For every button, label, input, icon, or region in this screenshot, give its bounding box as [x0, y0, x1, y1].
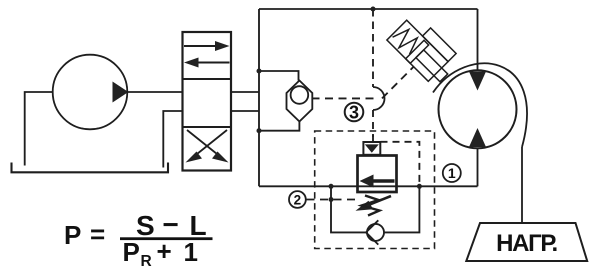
pilot line hop: [373, 87, 385, 110]
label circle 3: [345, 103, 364, 122]
label circle 2: [289, 191, 306, 208]
wire valve drain to tank: [163, 111, 182, 168]
junction dots on node line: [257, 69, 262, 74]
PV1 internal arrow: [368, 179, 395, 182]
svg-text:P: P: [123, 237, 140, 267]
wire valve port B right: [231, 110, 259, 112]
wire load line: [521, 147, 523, 223]
svg-text:1: 1: [448, 165, 456, 181]
PV1 vent dashed line: [381, 142, 420, 187]
pilot line 2 (dashed): [307, 199, 358, 201]
junction dots main line: [329, 184, 334, 189]
piston crossbar: [406, 40, 429, 63]
PV1 adjustable spring arrow: [362, 196, 391, 208]
label digits: [294, 103, 456, 208]
wire valve port A right: [231, 91, 259, 93]
PV1 pilot head triangle: [365, 144, 379, 152]
cylinder step collar: [423, 28, 457, 62]
valve arrow left (top cell): [197, 62, 230, 64]
svg-text:R: R: [141, 253, 152, 270]
pilot line 3 vertical (dashed): [372, 9, 374, 87]
pump P1: [53, 55, 128, 130]
junction dot top line: [371, 7, 376, 12]
svg-text:+: +: [157, 236, 172, 266]
swash arc: [433, 63, 527, 147]
pressure valve PV1 body: [358, 156, 397, 193]
wire pump suction to tank: [25, 92, 53, 166]
valve divider lower: [183, 126, 232, 128]
load trapezoid: [466, 223, 587, 261]
valve crossed arrows (bottom cell): [192, 130, 227, 158]
check valve CV1: [287, 81, 313, 122]
directional valve V1 body: [183, 32, 232, 171]
wire node line vertical: [258, 9, 260, 186]
bypass loop right: [384, 186, 419, 232]
wire check valve bottom branch: [259, 122, 299, 131]
spring zigzag: [390, 25, 421, 56]
compensator cylinder assembly: [387, 12, 462, 87]
svg-text:P: P: [64, 220, 81, 250]
cylinder barrel: [387, 20, 448, 81]
motor M1: [439, 70, 517, 148]
PV1 spring zigzag: [362, 196, 380, 216]
pilot diagonal to cylinder (dashed): [382, 67, 414, 99]
wire top line: [259, 8, 478, 10]
formula P = (S-L)/(Pr+1): [64, 209, 213, 270]
valve arrow right (top cell): [184, 45, 217, 47]
svg-text:НАГР.: НАГР.: [496, 230, 557, 257]
piston stem / rod: [416, 50, 448, 82]
PV1 pilot head box: [363, 142, 380, 155]
svg-text:1: 1: [184, 237, 198, 267]
svg-text:=: =: [90, 219, 105, 249]
label circle 1: [443, 164, 461, 182]
svg-text:3: 3: [349, 103, 359, 123]
tank: [12, 163, 169, 173]
wire main pressure line: [259, 185, 478, 187]
wire motor outlet: [477, 148, 479, 186]
wire motor inlet: [477, 9, 479, 71]
pilot line from check valve (dashed): [312, 97, 376, 99]
check valve CV2: [366, 220, 378, 244]
wire pump to valve: [127, 91, 182, 93]
wire branch to check valve top: [259, 71, 299, 81]
pressure valve enclosure (dashed box): [315, 131, 435, 249]
valve divider upper: [183, 78, 232, 80]
bypass loop left: [331, 186, 366, 232]
svg-text:2: 2: [294, 192, 302, 207]
